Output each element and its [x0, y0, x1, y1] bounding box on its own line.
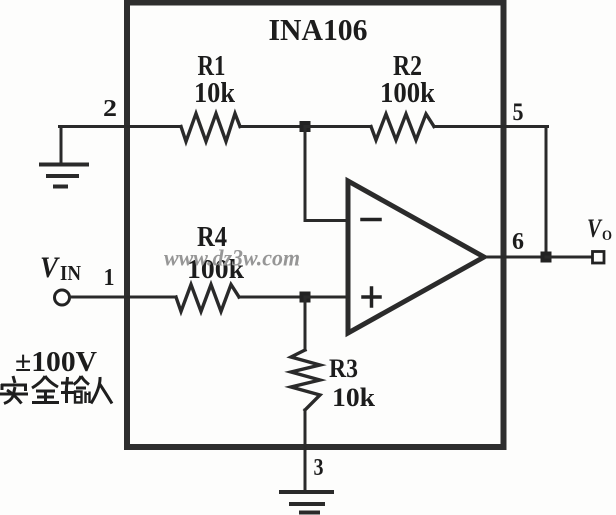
- wire op-amp output to node B: [485, 256, 546, 259]
- svg-text:IN: IN: [60, 261, 81, 285]
- resistor R1: [181, 114, 240, 142]
- ground GND1: [41, 127, 87, 187]
- resistor R3 (vertical): [291, 350, 320, 410]
- wire pin 2 input to R1: [60, 125, 182, 128]
- wire node A to R2: [305, 125, 371, 128]
- ground GND2: [281, 492, 332, 513]
- svg-text:10k: 10k: [194, 77, 236, 109]
- resistor R2: [371, 114, 434, 140]
- node C junction: [300, 292, 311, 303]
- IC boundary box U1 INA106: [127, 3, 504, 448]
- plus sign (non-inverting input): [363, 288, 380, 306]
- svg-text:INA106: INA106: [269, 12, 368, 47]
- 入: [91, 377, 100, 404]
- wire pin 5 down to node B: [545, 127, 548, 258]
- svg-text:R3: R3: [329, 354, 358, 383]
- svg-text:3: 3: [314, 455, 324, 481]
- wire node B to output terminal: [546, 256, 592, 259]
- resistor R4: [176, 285, 239, 312]
- op-amp U1 triangle: [348, 181, 484, 333]
- svg-text:±100V: ±100V: [15, 346, 97, 378]
- wire VIN to R4: [70, 296, 177, 299]
- minus sign (inverting input): [362, 218, 380, 222]
- svg-text:100k: 100k: [380, 77, 436, 109]
- 全: [32, 376, 45, 388]
- svg-text:1: 1: [104, 265, 115, 291]
- wire R4 to node C: [239, 296, 305, 299]
- wire R3 to pin 3 ground: [304, 410, 307, 491]
- wire R2 to pin 5 corner: [434, 125, 548, 128]
- svg-text:6: 6: [512, 229, 524, 255]
- svg-text:V: V: [40, 251, 61, 284]
- svg-text:2: 2: [103, 96, 117, 122]
- 安: [13, 376, 15, 383]
- output terminal VO (open square): [593, 252, 605, 264]
- svg-text:5: 5: [513, 99, 524, 126]
- wire R1 to node A: [240, 125, 305, 128]
- svg-text:O: O: [602, 228, 612, 244]
- label 安全输入 (safe input, hand-drawn glyphs): [0, 376, 112, 404]
- wire node C down to R3: [304, 297, 307, 350]
- svg-text:V: V: [587, 214, 603, 243]
- svg-text:10k: 10k: [332, 383, 376, 412]
- 输: [61, 382, 73, 385]
- node B junction: [541, 252, 552, 263]
- svg-text:www.dz3w.com: www.dz3w.com: [164, 246, 300, 271]
- wire node A down to op-amp inverting input: [305, 128, 348, 221]
- wire node C to op-amp non-inverting input: [305, 296, 348, 299]
- node A junction: [300, 121, 311, 132]
- input terminal VIN (open circle): [55, 290, 70, 305]
